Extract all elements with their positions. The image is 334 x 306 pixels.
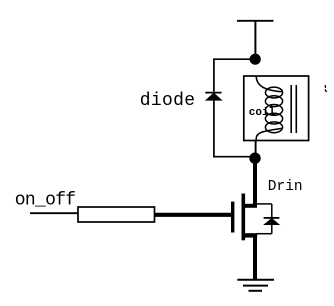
wire node B to drain (thick)	[253, 158, 257, 205]
diode D1 flyback	[205, 93, 221, 101]
wire input to resistor	[30, 212, 78, 214]
body diode loop top wire	[256, 203, 272, 205]
body diode D2	[264, 218, 280, 225]
relay core line 2	[295, 85, 297, 133]
relay core line 1	[290, 85, 292, 133]
transistor Q1 drain stub	[243, 204, 257, 208]
resistor R1	[78, 207, 155, 222]
relay box	[244, 76, 309, 141]
transistor Q1 channel plate	[242, 194, 246, 241]
body diode loop bottom wire	[256, 233, 272, 235]
wire source to ground (thick)	[253, 235, 257, 280]
wire diode branch to node B	[214, 156, 255, 158]
coil L1	[256, 76, 282, 141]
svg-text:coil: coil	[249, 107, 276, 119]
svg-text:Drin: Drin	[268, 179, 303, 195]
transistor Q1 source stub	[243, 233, 257, 237]
svg-text:diode: diode	[140, 91, 196, 111]
stray mark	[325, 85, 327, 92]
wire power rail to node A	[254, 21, 256, 59]
wire diode branch vertical lower	[213, 100, 215, 158]
wire diode branch vertical upper	[213, 58, 215, 91]
body diode loop right upper wire	[271, 204, 273, 218]
node A junction dot	[250, 54, 261, 65]
svg-text:on_off: on_off	[15, 191, 76, 211]
power rail bar	[237, 20, 274, 22]
body diode loop right lower wire	[271, 224, 273, 234]
wire relay box bottom to node B	[255, 140, 257, 158]
wire resistor to gate (thick)	[155, 213, 232, 217]
ground	[237, 280, 274, 291]
wire node A to diode branch	[214, 58, 255, 60]
node B junction dot	[249, 153, 260, 164]
transistor Q1 gate plate	[231, 202, 234, 233]
